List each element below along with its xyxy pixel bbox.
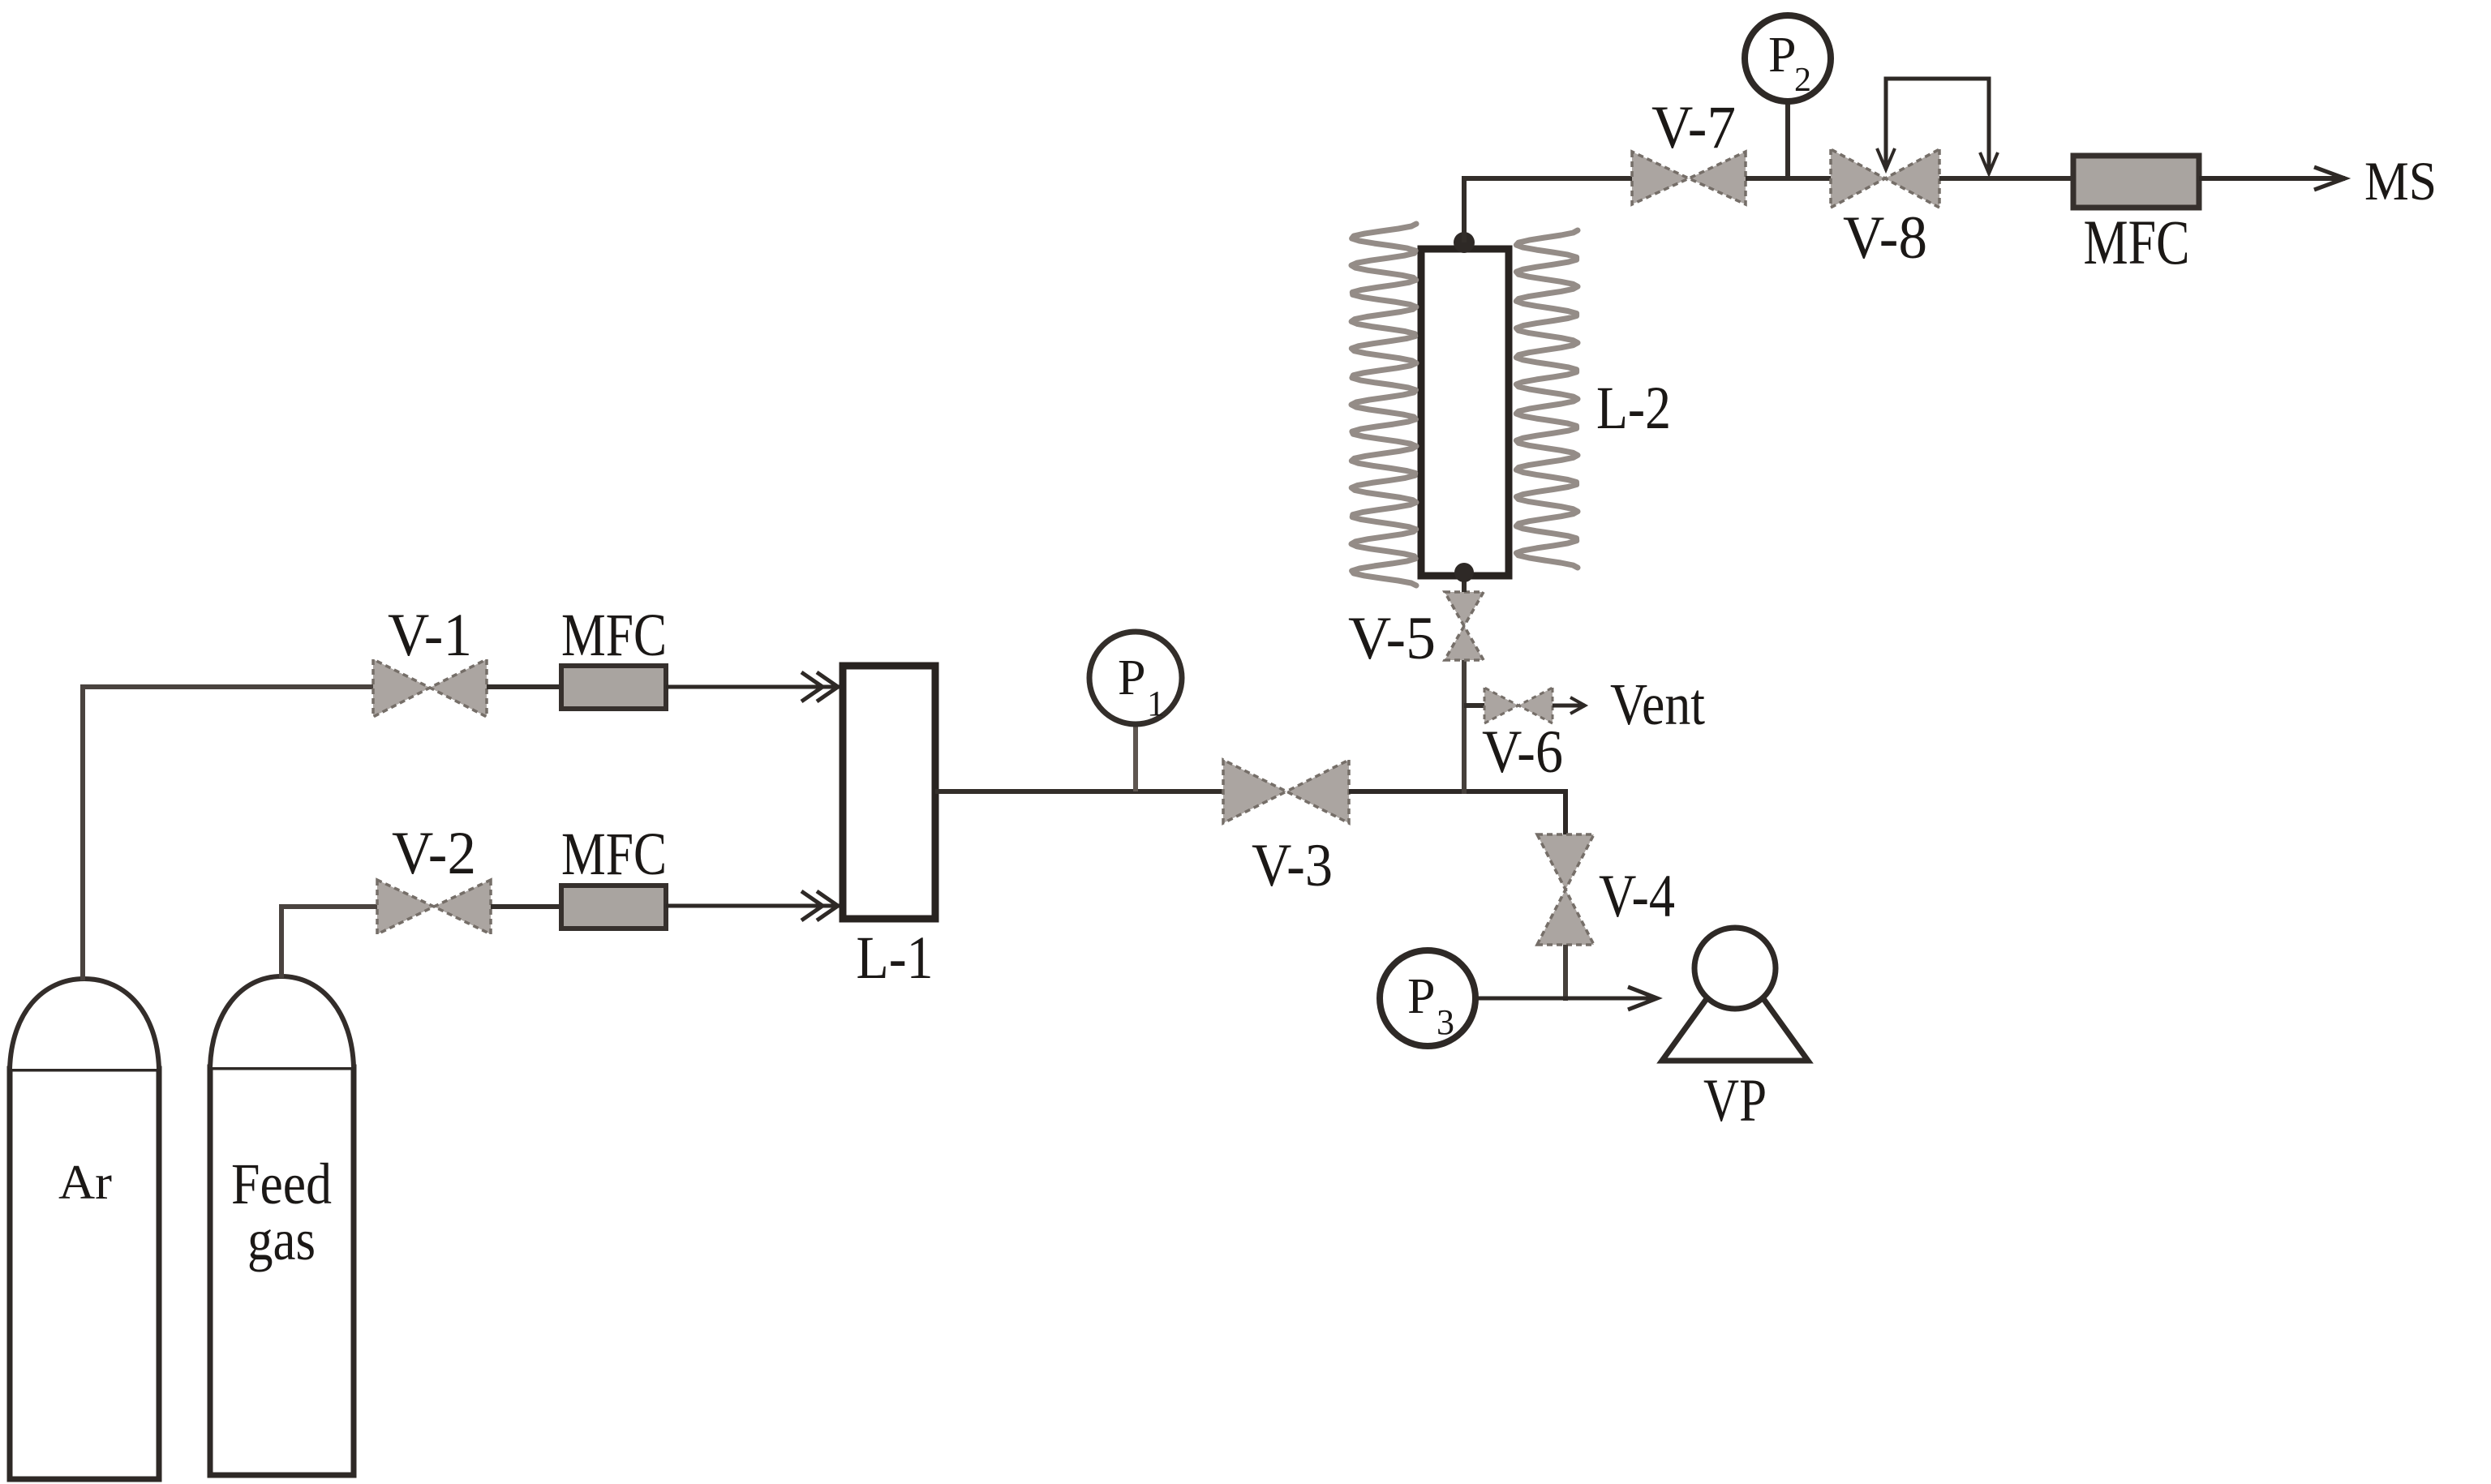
- gauge P2: [1745, 15, 1831, 101]
- wire bypass loop over V-8: [1886, 79, 1989, 172]
- valve V-1: [373, 659, 487, 717]
- node L-2 top: [1454, 232, 1475, 253]
- svg-text:V-3: V-3: [1252, 832, 1333, 899]
- valve V-4: [1537, 834, 1594, 945]
- wire L-1 to V-3: [935, 789, 1223, 794]
- wire junction riser to V-5: [1462, 660, 1467, 794]
- svg-text:Vent: Vent: [1610, 671, 1705, 737]
- wire V-7 to V-8: [1746, 176, 1831, 181]
- svg-text:V-4: V-4: [1599, 863, 1675, 930]
- svg-text:V-2: V-2: [392, 820, 476, 887]
- svg-text:L-1: L-1: [857, 924, 934, 992]
- column L-2: [1421, 249, 1509, 576]
- heater coil right of L-2: [1516, 230, 1578, 568]
- gas cylinder Feed gas: [210, 976, 354, 1475]
- svg-text:V-1: V-1: [388, 602, 472, 669]
- wire L-2 top riser and corner: [1464, 178, 1632, 242]
- heater coil left of L-2: [1351, 224, 1416, 585]
- wire MFC to L-1 (arrow): [666, 891, 840, 920]
- label P3: [1407, 969, 1454, 1042]
- wire bypass arrowhead right: [1980, 152, 1998, 174]
- wire V-4 to pump line: [1563, 945, 1568, 1001]
- valve V-3: [1223, 760, 1349, 823]
- wire bypass arrowhead left: [1877, 148, 1895, 169]
- wire MFC to L-1 (arrow): [666, 672, 840, 701]
- svg-text:Feed: Feed: [231, 1152, 332, 1216]
- valve V-2: [377, 880, 491, 934]
- node L-2 bottom: [1454, 563, 1474, 582]
- svg-text:Ar: Ar: [58, 1156, 112, 1209]
- svg-text:V-6: V-6: [1482, 718, 1563, 786]
- valve V-8: [1831, 149, 1939, 208]
- MFC (Ar line): [561, 666, 666, 709]
- wire V-5 to L-2 bottom: [1462, 572, 1467, 592]
- wire Ar cylinder to V-1: [83, 687, 373, 980]
- svg-text:V-7: V-7: [1651, 94, 1736, 161]
- svg-text:P: P: [1118, 650, 1145, 706]
- wire MFC to MS (arrow): [2199, 167, 2345, 190]
- wire V-8 to MFC: [1939, 176, 2073, 181]
- svg-text:1: 1: [1147, 684, 1165, 723]
- wire V-2 to MFC: [491, 904, 561, 909]
- MFC (Feed gas line): [561, 886, 666, 929]
- MFC (MS line): [2073, 156, 2199, 208]
- wire Feed gas cylinder to V-2: [281, 907, 377, 978]
- gauge P3: [1380, 950, 1475, 1046]
- svg-text:VP: VP: [1703, 1067, 1767, 1134]
- wire V-1 to MFC: [487, 684, 561, 689]
- svg-text:MS: MS: [2364, 150, 2437, 212]
- svg-text:L-2: L-2: [1596, 375, 1671, 442]
- gas cylinder Ar: [10, 979, 159, 1479]
- column L-1: [843, 666, 935, 919]
- label P2: [1768, 28, 1811, 99]
- gauge P2 stem: [1785, 101, 1790, 178]
- svg-text:P: P: [1768, 28, 1796, 83]
- label P1: [1118, 650, 1165, 723]
- wire V-6 to Vent (arrow): [1553, 697, 1585, 714]
- svg-text:MFC: MFC: [561, 821, 667, 888]
- valve V-6: [1484, 688, 1553, 723]
- gauge P1 stem: [1133, 722, 1138, 791]
- svg-text:gas: gas: [247, 1207, 316, 1272]
- svg-text:P: P: [1407, 969, 1435, 1024]
- svg-text:MFC: MFC: [2084, 207, 2190, 277]
- valve V-7: [1632, 152, 1746, 204]
- svg-text:MFC: MFC: [561, 602, 667, 669]
- gauge P1: [1089, 632, 1182, 724]
- svg-text:V-5: V-5: [1348, 605, 1436, 672]
- wire V-3 to V-4 branch corner: [1349, 791, 1565, 834]
- valve V-5: [1445, 592, 1484, 660]
- vacuum pump VP: [1662, 928, 1808, 1061]
- svg-text:V-8: V-8: [1843, 204, 1927, 272]
- svg-text:2: 2: [1794, 62, 1811, 99]
- wire vent tee: [1464, 703, 1484, 708]
- wire P3 to VP (arrow): [1475, 987, 1657, 1010]
- svg-text:3: 3: [1437, 1002, 1454, 1042]
